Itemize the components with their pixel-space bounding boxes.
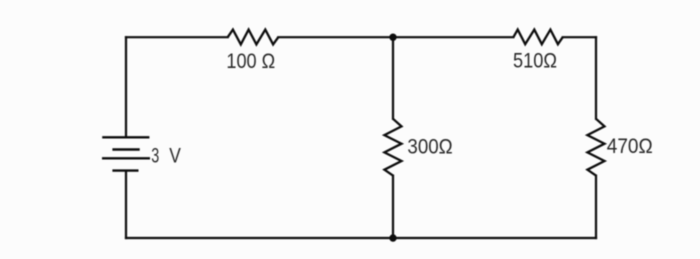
junction dot top (node A) [389,34,396,41]
junction dot bottom (node B) [389,234,396,241]
wire: right vertical upper [595,37,597,119]
wire: right vertical lower [595,176,597,238]
wire: left vertical lower (battery - to bottom) [125,171,127,238]
svg-text:300Ω: 300Ω [407,135,452,159]
svg-text:V: V [169,144,181,168]
battery B1 plate 1 (long, +) [102,136,149,138]
resistor 510Ω zigzag [513,30,562,45]
svg-text:100 Ω: 100 Ω [226,49,275,73]
svg-text:470Ω: 470Ω [607,134,653,158]
wire: top-middle horizontal segment [278,36,513,38]
resistor 100Ω zigzag [228,30,279,45]
resistor 300Ω zigzag [384,119,401,176]
wire: bottom horizontal [126,237,596,239]
wire: top-right horizontal segment [563,36,596,38]
wire: middle vertical lower [392,176,394,238]
wire: left vertical upper (battery + to top) [125,37,127,137]
svg-text:3: 3 [151,144,159,168]
battery B1 plate 3 (long, +) [102,157,150,159]
battery B1 plate 2 (short, -) [112,148,139,150]
resistor 470Ω zigzag [587,119,604,176]
wire: top-left horizontal segment [126,36,228,38]
svg-text:510Ω: 510Ω [513,49,557,73]
wire: middle vertical upper [392,37,394,119]
battery B1 plate 4 (short, -) [112,169,138,171]
